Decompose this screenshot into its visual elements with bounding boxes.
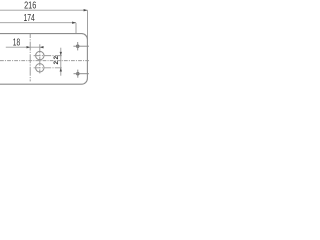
corner hole H2 xyxy=(76,72,79,75)
dimension 216 extension line xyxy=(87,10,89,39)
dimension 22 bottom arrow xyxy=(60,68,62,72)
dimension 18 left arrow xyxy=(27,46,31,48)
dimension 216 arrow xyxy=(84,9,88,11)
H2 horizontal centerline xyxy=(74,73,89,75)
svg-text:22: 22 xyxy=(53,56,60,65)
dimension 18 line xyxy=(6,46,44,48)
dimension 18 right arrow xyxy=(40,46,44,48)
hole circle C1 xyxy=(36,51,44,59)
centerline of C2 xyxy=(34,67,63,69)
corner hole H1 xyxy=(76,45,79,48)
H1 horizontal centerline xyxy=(73,45,89,47)
H1 vertical centerline xyxy=(77,42,79,50)
dimension 216 line xyxy=(0,9,88,11)
dimension 174 arrow xyxy=(72,22,76,24)
dimension 22 line xyxy=(60,48,62,76)
H2 vertical centerline xyxy=(77,70,79,78)
centerline at x=30 xyxy=(29,34,31,82)
vertical centerline through circles xyxy=(39,44,41,73)
plate outline xyxy=(0,34,87,85)
hole circle C2 xyxy=(36,64,44,72)
dimension 174 line xyxy=(0,22,76,24)
centerline of C1 xyxy=(34,55,63,57)
dimension 22 top arrow xyxy=(60,52,62,56)
horizontal datum centerline xyxy=(0,60,90,62)
dimension 174 extension line xyxy=(75,23,77,33)
